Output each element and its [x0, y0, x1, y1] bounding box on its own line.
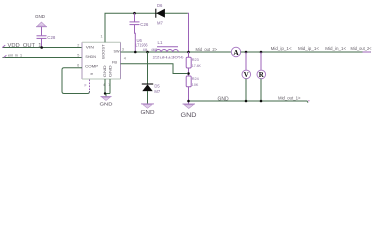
svg-text:VDD_OUT_1: VDD_OUT_1	[8, 43, 42, 49]
wire rail to out node	[187, 13, 190, 52]
svg-text:SHDN: SHDN	[85, 54, 96, 59]
node junction	[134, 51, 137, 54]
svg-text:R23: R23	[192, 57, 200, 62]
capacitor C26	[130, 13, 149, 27]
svg-text:Mid_out_2>: Mid_out_2>	[196, 47, 218, 52]
svg-text:M7: M7	[157, 21, 163, 26]
svg-text:L1: L1	[158, 40, 163, 45]
svg-text:GND: GND	[102, 65, 107, 77]
node junction	[40, 46, 43, 49]
svg-text:SW: SW	[114, 49, 120, 54]
svg-text:2: 2	[77, 43, 79, 47]
wire SW line	[121, 51, 232, 53]
node off-page tick 2	[4, 55, 7, 57]
svg-text:GND: GND	[100, 101, 114, 107]
svg-text:GND: GND	[108, 65, 113, 77]
svg-text:7: 7	[108, 83, 110, 87]
wire comp dashed	[89, 80, 91, 93]
wire	[260, 79, 262, 102]
node junction	[245, 51, 248, 54]
svg-text:eni_in_1: eni_in_1	[8, 52, 23, 57]
wire	[41, 38, 43, 47]
svg-text:Mid_ip_1<: Mid_ip_1<	[271, 46, 292, 51]
svg-text:Mid_out_1>: Mid_out_1>	[278, 95, 301, 100]
svg-text:F: F	[85, 84, 87, 88]
svg-text:3: 3	[122, 48, 124, 52]
meter R	[257, 70, 266, 79]
svg-text:A: A	[233, 48, 239, 57]
wire BOOST riser	[105, 13, 188, 42]
wire	[245, 79, 247, 102]
svg-text:C28: C28	[47, 35, 56, 40]
wire cap to SW	[134, 25, 137, 52]
svg-text:9: 9	[89, 72, 94, 75]
svg-text:D6: D6	[157, 3, 163, 8]
svg-text:M7: M7	[154, 89, 160, 94]
node junction	[104, 92, 106, 94]
node junction	[146, 51, 149, 54]
wire VDD_OUT_1	[3, 47, 82, 49]
svg-text:D5: D5	[154, 83, 160, 88]
node rail end tip	[308, 100, 310, 101]
svg-text:GND: GND	[35, 14, 46, 19]
wire eni_in_1	[3, 57, 82, 59]
svg-text:VIN: VIN	[86, 45, 94, 50]
ground GND chip	[100, 97, 114, 108]
wire FB	[121, 64, 188, 74]
wire R meter drop	[260, 52, 262, 70]
svg-text:Mid_out_2<: Mid_out_2<	[351, 46, 372, 51]
svg-text:Mid_ip_1<: Mid_ip_1<	[298, 46, 319, 51]
diode D6 boost	[156, 3, 165, 26]
svg-text:Mid_in_1<: Mid_in_1<	[325, 46, 346, 51]
ground GND below D5	[141, 104, 155, 116]
svg-text:22uH±30%: 22uH±30%	[153, 54, 185, 59]
node off-page connector right	[363, 51, 371, 53]
meter A	[231, 47, 240, 57]
node junction	[245, 100, 248, 103]
svg-text:5: 5	[77, 53, 79, 57]
svg-text:LT1936: LT1936	[136, 42, 149, 47]
diode D5 catch	[142, 52, 161, 104]
resistor R23	[186, 52, 201, 76]
svg-text:FB: FB	[112, 59, 117, 64]
svg-text:C26: C26	[140, 22, 149, 27]
svg-text:GND: GND	[181, 113, 198, 119]
wire chip GND pins	[103, 79, 110, 96]
resistor R24	[186, 76, 199, 104]
node off-page tick 1	[2, 45, 5, 47]
capacitor C28	[37, 35, 56, 40]
svg-text:1: 1	[101, 35, 103, 39]
svg-text:4: 4	[103, 83, 105, 87]
svg-text:6: 6	[77, 64, 79, 68]
wire COMP loop	[62, 68, 90, 94]
svg-text:BOOST: BOOST	[101, 44, 106, 59]
svg-text:COMP: COMP	[85, 64, 98, 69]
svg-text:4: 4	[124, 56, 126, 60]
node junction out	[187, 51, 190, 54]
meter V	[242, 70, 251, 79]
svg-text:10K: 10K	[192, 82, 199, 87]
node junction FB	[187, 72, 190, 75]
wire SW line right	[241, 51, 371, 53]
svg-text:4M: 4M	[143, 48, 148, 52]
node junction	[133, 12, 136, 15]
wire GND rail	[189, 101, 309, 103]
IC U6 LT1936 regulator body	[82, 42, 121, 79]
inductor L1	[153, 40, 185, 59]
svg-text:GND: GND	[141, 110, 155, 116]
node junction	[260, 100, 263, 103]
wire	[41, 27, 43, 35]
ground GND top-left	[35, 14, 47, 27]
wire V meter drop	[245, 52, 247, 70]
svg-text:GND: GND	[218, 96, 230, 102]
svg-text:R24: R24	[192, 76, 200, 81]
svg-text:V: V	[244, 72, 249, 79]
svg-text:17.4K: 17.4K	[192, 63, 201, 68]
node junction	[187, 100, 190, 103]
ground GND rail	[181, 104, 198, 119]
node junction	[260, 51, 263, 54]
